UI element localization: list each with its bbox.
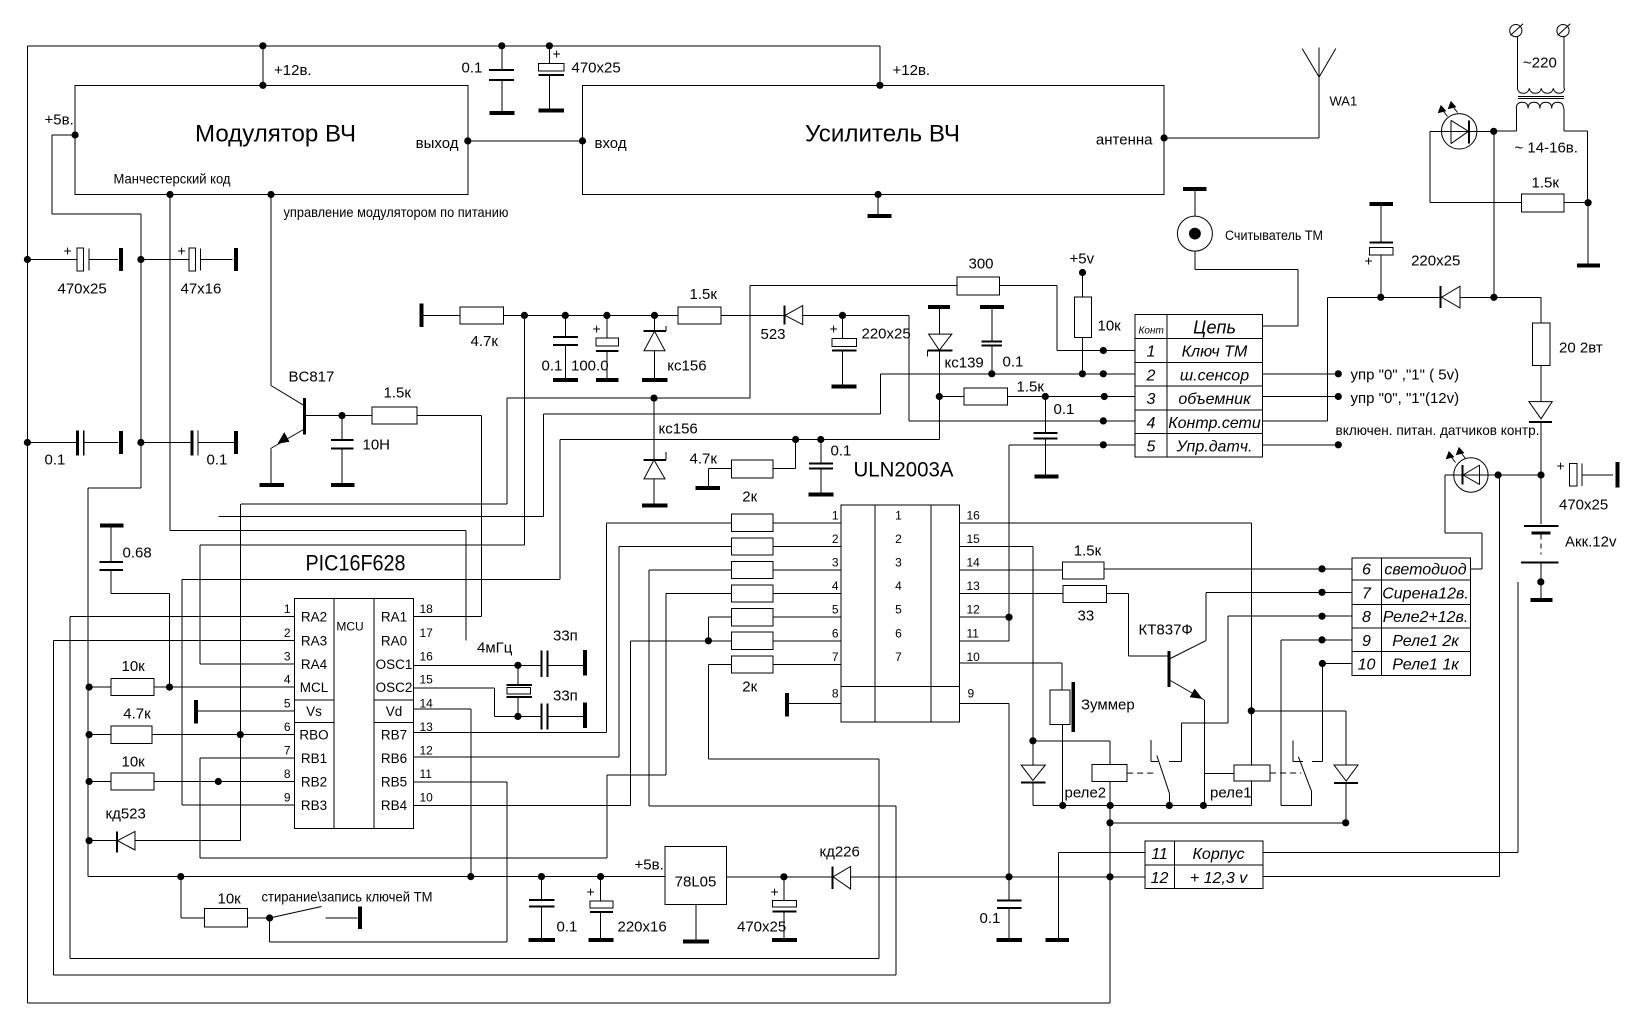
wire ULN r6 left (631, 640, 732, 642)
svg-text:2к: 2к (742, 489, 757, 506)
wire net to 300 resistor (507, 397, 750, 399)
ground bar of 470x25 top (539, 109, 565, 113)
wire +5v feed to Модулятор (72, 131, 79, 138)
svg-text:реле2: реле2 (1065, 785, 1107, 802)
svg-text:4.7к: 4.7к (471, 333, 499, 350)
svg-text:8: 8 (284, 767, 291, 781)
capacitor 0.1 5v rail (541, 877, 543, 900)
svg-text:упр "0" ,"1" ( 5v): упр "0" ,"1" ( 5v) (1351, 367, 1460, 384)
wire bottom outer +12v line (27, 1002, 1110, 1004)
wire relay1 coil left to emitter (1204, 773, 1234, 775)
svg-text:0.1: 0.1 (980, 910, 1001, 927)
wire pin2 RA3 net (53, 639, 294, 641)
node LED1 right (1490, 128, 1497, 135)
svg-text:3: 3 (832, 556, 839, 570)
bar of 470x25 left (119, 248, 123, 271)
svg-text:1: 1 (832, 508, 839, 522)
svg-text:+: + (64, 243, 72, 259)
svg-text:~220: ~220 (1523, 55, 1557, 72)
svg-text:RB2: RB2 (301, 775, 327, 790)
transformer core (1518, 95, 1564, 97)
bar of switch (358, 907, 362, 930)
svg-text:20 2вт: 20 2вт (1559, 340, 1603, 357)
resistor 300 (957, 277, 1000, 295)
wire relay2 contact to row8 (1181, 722, 1228, 724)
wire KT837 emitter down (1203, 700, 1205, 806)
wire bus2 (1109, 806, 1111, 823)
wire LED2 node to +12 node (1498, 474, 1541, 476)
capacitor 0.1 top (501, 46, 503, 70)
resistor 1.5k row6 (1063, 562, 1104, 579)
ground of 4.7k pulldown (695, 486, 720, 490)
wire Считыватель to table (1194, 251, 1196, 270)
capacitor 470x25 12v (783, 877, 785, 901)
wire BC817 base node (306, 415, 343, 417)
svg-text:4.7к: 4.7к (123, 706, 151, 723)
block Модулятор ВЧ (75, 85, 468, 194)
svg-text:16: 16 (967, 508, 981, 522)
wire +12 to row12 and bottom (1109, 823, 1111, 877)
resistor 20 2вт (1533, 323, 1551, 365)
wire pin1 RA2 net (70, 616, 295, 618)
wire RB6 pin12 to ULN2 (414, 756, 619, 758)
svg-text:Считыватель ТМ: Считыватель ТМ (1225, 228, 1323, 243)
wire RB2 net horizontal B (218, 515, 543, 517)
svg-text:8: 8 (832, 687, 839, 701)
table Цепь connector (1135, 314, 1262, 457)
svg-text:10к: 10к (1098, 318, 1122, 335)
wire 1.5k to RA1 (417, 415, 481, 417)
bar of 470x25 battery (1615, 462, 1619, 488)
svg-text:13: 13 (967, 579, 981, 593)
svg-text:BC817: BC817 (289, 369, 335, 386)
svg-text:выход: выход (416, 135, 459, 152)
svg-text:10к: 10к (122, 754, 146, 771)
wire row9 Реле1 2к net (1281, 639, 1352, 641)
svg-text:16: 16 (420, 650, 434, 664)
capacitor 0.1 row2 mid (137, 439, 144, 446)
capacitor 220x16 (600, 877, 602, 901)
wire relay2 coil bottom (1109, 781, 1111, 805)
bar Vs ground (194, 700, 198, 724)
wire ULN pin15 to relay2 node (960, 545, 1033, 547)
wire LED1 left to 1.5k (1429, 131, 1431, 202)
svg-text:кд226: кд226 (820, 844, 860, 861)
resistor 10k RB2 pullup (86, 778, 93, 785)
bar of 33п lower (583, 703, 587, 728)
wire antenna feed (1161, 134, 1168, 141)
wire +12 line to table row12 (851, 876, 1146, 878)
svg-text:Контр.сети: Контр.сети (1168, 415, 1261, 432)
resistor 10k MCL pullup (86, 684, 93, 691)
svg-text:+: + (830, 321, 838, 337)
svg-text:RB1: RB1 (301, 751, 327, 766)
svg-text:4: 4 (895, 579, 902, 593)
wire RB0 vertical (239, 504, 241, 841)
svg-text:10к: 10к (122, 658, 146, 675)
resistor 4.7k rail (422, 314, 461, 316)
bar of 0.1 row2 mid (234, 431, 238, 454)
wire row11 Корпус left to ground (1058, 852, 1145, 854)
svg-text:220x16: 220x16 (618, 919, 667, 936)
svg-text:11: 11 (420, 767, 433, 781)
wire row10 Реле1 1к net (1322, 663, 1352, 665)
wire 220x25 node to row4 net (843, 314, 910, 316)
svg-text:RB5: RB5 (381, 775, 407, 790)
block Усилитель ВЧ (583, 85, 1165, 194)
svg-text:RB3: RB3 (301, 798, 327, 813)
wire to 20 2вт resistor (1494, 296, 1541, 298)
svg-text:0.1: 0.1 (45, 452, 66, 469)
svg-text:+: + (593, 321, 601, 337)
bar of 0.1 row2 left (119, 431, 123, 454)
svg-text:RA4: RA4 (301, 657, 328, 672)
wire row2 ш.сенсор net (881, 373, 1136, 375)
svg-text:0.68: 0.68 (123, 545, 152, 562)
wire модулятор control to BC817 collector (270, 195, 272, 386)
svg-text:11: 11 (1151, 846, 1168, 863)
wire +5v rail down to PIC area (140, 260, 142, 488)
LED HL2 (1454, 458, 1488, 492)
svg-text:RA3: RA3 (301, 633, 327, 648)
svg-text:Реле1 2к: Реле1 2к (1392, 633, 1460, 650)
svg-text:3: 3 (284, 650, 291, 664)
svg-text:Корпус: Корпус (1192, 846, 1244, 863)
bar of 33п upper (583, 650, 587, 675)
wire bus1 +12 relay bus (1033, 805, 1251, 807)
capacitor 47x16 electrolytic (137, 256, 144, 263)
svg-text:15: 15 (967, 532, 981, 546)
svg-text:5: 5 (895, 603, 902, 617)
capacitor 0.1 mid with top bar (980, 305, 1004, 309)
svg-text:1.5к: 1.5к (1074, 543, 1102, 560)
svg-text:Цепь: Цепь (1193, 318, 1236, 338)
IC PIC16F628 body (294, 599, 413, 829)
svg-text:ULN2003A: ULN2003A (854, 459, 954, 482)
svg-text:5: 5 (1147, 439, 1156, 456)
svg-text:5: 5 (832, 603, 839, 617)
svg-text:17: 17 (420, 626, 434, 640)
svg-text:упр "0", "1"(12v): упр "0", "1"(12v) (1351, 390, 1460, 407)
svg-text:8: 8 (1362, 609, 1371, 626)
svg-text:470x25: 470x25 (572, 60, 621, 77)
wire ULN r1 left (606, 522, 731, 524)
svg-text:2: 2 (1146, 368, 1156, 385)
wire LED1 node down to diode node (1493, 131, 1495, 297)
svg-text:4.7к: 4.7к (690, 451, 718, 468)
svg-text:7: 7 (284, 744, 291, 758)
svg-text:Ключ ТМ: Ключ ТМ (1182, 344, 1248, 361)
wire RB7 pin13 to ULN1 (414, 732, 607, 734)
svg-text:1.5к: 1.5к (1532, 175, 1560, 192)
svg-text:10: 10 (420, 791, 434, 805)
wire ULN pin16 to relay1 (960, 522, 1252, 524)
wire 0.68 to MCL (111, 593, 170, 595)
svg-text:6: 6 (895, 626, 902, 640)
svg-text:3: 3 (895, 556, 902, 570)
svg-text:470x25: 470x25 (737, 919, 786, 936)
wire ULN r3 left (649, 569, 732, 571)
svg-text:кс156: кс156 (667, 358, 706, 375)
wire ULN pin9 to +12 (960, 702, 1010, 704)
resistor 4.7k RB0 pullup (86, 731, 93, 738)
svg-text:Модулятор ВЧ: Модулятор ВЧ (195, 121, 356, 148)
node +12v rail junction dots (259, 42, 266, 49)
zener кс156 second (653, 398, 655, 460)
svg-text:1: 1 (895, 508, 902, 522)
svg-text:11: 11 (967, 626, 980, 640)
svg-text:~ 14-16в.: ~ 14-16в. (1515, 140, 1578, 157)
crystal 4мГц (517, 665, 519, 685)
wire pin5 Vs ground (197, 710, 295, 712)
diode 523 (784, 306, 786, 325)
svg-text:кс139: кс139 (945, 355, 984, 372)
svg-text:300: 300 (969, 256, 994, 273)
wire pin7 RB1 net (200, 757, 294, 759)
svg-text:Конт: Конт (1139, 326, 1164, 337)
capacitor 33п lower (540, 703, 542, 729)
svg-text:2: 2 (832, 532, 839, 546)
diode relay2 flyback (1032, 741, 1034, 765)
wire ULN r7 left (708, 663, 731, 665)
battery Акк.12v (1540, 475, 1542, 524)
wire relay1 right contact to row10 (1321, 664, 1323, 762)
capacitor 0.1 pulldown (820, 440, 822, 464)
svg-text:10: 10 (967, 650, 981, 664)
node Модулятор bottom outputs (166, 191, 173, 198)
diode below 20 2вт (1540, 365, 1542, 401)
svg-text:12: 12 (420, 744, 434, 758)
wire ULN r4 left (666, 593, 732, 595)
ground of secondary (1587, 203, 1589, 265)
wire switch to RB5 (269, 918, 271, 942)
capacitor 100.0 electrolytic (606, 315, 608, 338)
relay1 contact (1292, 740, 1294, 761)
svg-text:1.5к: 1.5к (690, 286, 718, 303)
svg-text:9: 9 (284, 791, 291, 805)
buzzer Зуммер (1050, 690, 1070, 724)
wire row8 Реле2+12в net (1228, 615, 1352, 617)
ground of 220x16 (589, 938, 614, 942)
svg-text:4: 4 (832, 579, 839, 593)
capacitor 0.1 row2 left (24, 439, 31, 446)
svg-text:ш.сенсор: ш.сенсор (1180, 368, 1249, 385)
svg-text:2: 2 (895, 532, 902, 546)
bar input of 4.7k (420, 304, 424, 328)
svg-text:+5в.: +5в. (45, 112, 74, 129)
wire buzzer bottom (1062, 724, 1064, 805)
wire pin15 node to relay2 coil (1033, 740, 1110, 742)
table connector 6-10 (1352, 558, 1471, 676)
ULN pin8 ground (787, 702, 841, 704)
svg-text:MCL: MCL (300, 680, 329, 695)
svg-text:4: 4 (1147, 415, 1156, 432)
svg-text:100.0: 100.0 (571, 358, 609, 375)
resistor 10k key (180, 877, 182, 918)
svg-text:Манчестерский код: Манчестерский код (114, 171, 231, 187)
svg-text:33: 33 (1078, 608, 1095, 625)
wire RB3 net E to кс139 bottom (182, 578, 560, 580)
wire row6 светодиод net (1104, 568, 1352, 570)
svg-text:Зуммер: Зуммер (1081, 697, 1135, 714)
resistor 1.5k base BC817 (372, 407, 417, 424)
resistor 1.5k lamp (1522, 194, 1564, 212)
svg-text:включен. питан. датчиков контр: включен. питан. датчиков контр. (1336, 422, 1540, 438)
svg-text:OSC1: OSC1 (376, 657, 413, 672)
wire ULN pin13 to 33 (960, 593, 1064, 595)
ground of Усилитель (875, 191, 882, 198)
relay coil реле1 (1234, 765, 1270, 781)
svg-text:+: + (587, 884, 595, 900)
svg-text:стирание\запись ключей ТМ: стирание\запись ключей ТМ (262, 889, 433, 905)
svg-text:5: 5 (284, 697, 291, 711)
ground of кс156 second (642, 503, 668, 507)
diode кд226 (784, 876, 833, 878)
diode relay1 flyback (1251, 710, 1346, 712)
wire ULN pin11 (960, 640, 1009, 642)
svg-text:+: + (178, 243, 186, 259)
svg-text:RB6: RB6 (381, 751, 407, 766)
svg-text:+: + (1365, 253, 1373, 269)
svg-text:антенна: антенна (1096, 132, 1153, 149)
svg-text:10к: 10к (218, 891, 242, 908)
ground of 0.1 5v (529, 938, 556, 942)
svg-text:+ 12,3 v: + 12,3 v (1190, 870, 1248, 887)
reader Считыватель ТМ (1183, 187, 1206, 191)
wire secondary left (1494, 130, 1517, 132)
svg-text:2: 2 (284, 626, 291, 640)
svg-text:вход: вход (595, 135, 627, 152)
wire ULN pin12 (960, 616, 1009, 618)
svg-text:+: + (1557, 458, 1565, 474)
wire 300 to row1 (1000, 284, 1058, 286)
wire row6 to LED1 (1471, 568, 1483, 570)
svg-text:+: + (553, 46, 561, 62)
svg-text:объемник: объемник (1178, 391, 1252, 408)
wire OSC1 pin16 (414, 664, 542, 666)
ground of 0.1 pulldown (808, 492, 833, 496)
svg-text:47x16: 47x16 (181, 281, 222, 298)
wire relay1 coil bottom (1250, 781, 1252, 805)
svg-text:1.5к: 1.5к (1017, 379, 1045, 396)
svg-text:220x25: 220x25 (1411, 253, 1460, 270)
svg-text:Акк.12v: Акк.12v (1565, 534, 1617, 551)
svg-text:33п: 33п (553, 628, 578, 645)
ground of 78L05 (695, 905, 697, 941)
capacitor 0.68 (100, 524, 123, 528)
svg-text:светодиод: светодиод (1384, 562, 1466, 579)
IC 78L05 (665, 847, 726, 905)
svg-text:14: 14 (967, 556, 981, 570)
svg-text:кд523: кд523 (106, 806, 146, 823)
diode кд523 (86, 837, 93, 844)
wire Manchester code net to RA0 (169, 195, 171, 531)
svg-text:+12в.: +12в. (274, 62, 312, 79)
svg-text:0.1: 0.1 (1003, 354, 1024, 371)
capacitor 10H (341, 416, 343, 441)
svg-text:RB7: RB7 (381, 728, 407, 743)
relay2 contact (1150, 740, 1152, 761)
LED HL1 top (1442, 114, 1477, 149)
wire 33 to KT837 base (1107, 593, 1129, 595)
antenna WA1 (1318, 47, 1320, 138)
capacitor 470x25 electrolytic left (24, 256, 31, 263)
svg-text:15: 15 (420, 673, 434, 687)
wire ULN pin14 to 1.5k LED (960, 569, 1063, 571)
capacitor 0.1 12v (1008, 877, 1010, 901)
svg-text:+5в.: +5в. (635, 857, 664, 874)
svg-text:MCU: MCU (336, 620, 363, 634)
svg-text:1: 1 (284, 602, 291, 616)
svg-text:10: 10 (1358, 657, 1376, 674)
ground of кс156 rail (642, 378, 668, 382)
wire Модулятор +12 stub (262, 46, 264, 86)
svg-text:PIC16F628: PIC16F628 (306, 551, 406, 576)
capacitor 220x25 electrolytic rail (842, 315, 844, 338)
node LED2 right (1495, 471, 1502, 478)
IC ULN2003A body (841, 505, 960, 722)
svg-text:9: 9 (968, 687, 975, 701)
resistor 1.5k rail (678, 307, 721, 324)
terminal ~220 right (1557, 25, 1569, 37)
wire 1.5k to diode 523 (721, 314, 785, 316)
wire 1.5k right node (1564, 202, 1588, 204)
wire кс139 to ground-net (938, 397, 940, 440)
svg-text:OSC2: OSC2 (376, 680, 413, 695)
ground of 10H (331, 483, 354, 487)
svg-text:+: + (771, 884, 779, 900)
svg-text:Vd: Vd (386, 704, 403, 719)
wire row3 output (1262, 396, 1338, 398)
wire выход-вход link (464, 137, 471, 144)
resistor 33 (1063, 586, 1106, 603)
table connector 11-12 (1145, 841, 1263, 889)
svg-text:0.1: 0.1 (557, 919, 578, 936)
dashed link реле2 (1127, 772, 1155, 774)
ground of battery (1531, 598, 1553, 602)
wire RB0 net horizontal A (241, 503, 507, 505)
zener кс139 (928, 305, 950, 309)
wire pin9 RB3 net (182, 804, 295, 806)
svg-text:2к: 2к (742, 679, 757, 696)
svg-text:6: 6 (1362, 562, 1371, 579)
ground of 0.1 12v (997, 938, 1022, 942)
ground of 100.0 (596, 378, 619, 382)
svg-text:0.1: 0.1 (1054, 401, 1075, 418)
svg-text:6: 6 (284, 720, 291, 734)
wire diode to 220x25 node (803, 314, 843, 316)
svg-text:RBO: RBO (299, 728, 328, 743)
svg-text:+12в.: +12в. (893, 62, 931, 79)
wire Vd pin14 to +5v bus (414, 708, 471, 710)
wire row3 объемник net (1008, 396, 1136, 398)
wire row7 Сирена net (1206, 591, 1352, 593)
wire row11 Корпус right to battery (1263, 852, 1518, 854)
ground of 0.1 row3 (1035, 475, 1059, 479)
svg-text:RA2: RA2 (301, 610, 327, 625)
svg-text:7: 7 (1362, 586, 1372, 603)
svg-text:3: 3 (1147, 391, 1156, 408)
wire 78L05 input from +12 (727, 876, 784, 878)
wire row2 output (1262, 373, 1338, 375)
wire ULN pin10 to buzzer (960, 662, 1063, 664)
svg-text:6: 6 (832, 626, 839, 640)
wire row5 Упр.датч net (1009, 444, 1135, 446)
svg-text:4: 4 (284, 673, 291, 687)
svg-text:220x25: 220x25 (862, 326, 911, 343)
terminal ~220 left (1510, 25, 1522, 37)
ground of 220x25 rail (831, 385, 856, 389)
